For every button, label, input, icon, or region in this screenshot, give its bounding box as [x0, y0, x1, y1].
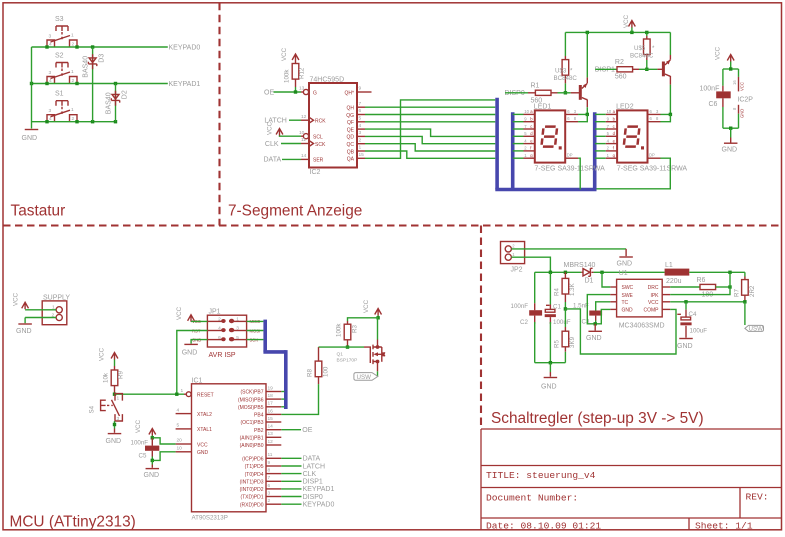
- wire PD net LATCH: [281, 465, 301, 467]
- svg-text:KEYPAD1: KEYPAD1: [303, 486, 335, 493]
- svg-text:g: g: [530, 153, 533, 158]
- svg-text:1.3K: 1.3K: [569, 282, 576, 296]
- capacitor C2 100nF: [511, 272, 543, 362]
- svg-text:9: 9: [268, 460, 271, 466]
- capacitor C3 1.5nF: [582, 304, 603, 326]
- svg-text:PB4: PB4: [254, 413, 264, 419]
- svg-text:OE: OE: [264, 89, 274, 96]
- ground C6: [730, 138, 732, 143]
- svg-text:(MISO)PB6: (MISO)PB6: [238, 397, 264, 403]
- svg-text:3: 3: [574, 109, 577, 114]
- wire C5 to IC1 GND pin: [152, 452, 175, 461]
- wire S4 to GND: [114, 421, 116, 429]
- wire JP1 pin2 VCC: [191, 320, 207, 322]
- svg-text:(TXD)PD1: (TXD)PD1: [240, 495, 263, 501]
- wire LED1 DP to bus: [578, 158, 580, 189]
- svg-text:(ICP)PD6: (ICP)PD6: [242, 457, 264, 463]
- svg-text:6: 6: [268, 483, 271, 489]
- wire VCC to R3 top: [348, 318, 379, 321]
- svg-text:100nF: 100nF: [131, 439, 149, 446]
- diode D1 MBRS140: [564, 262, 596, 285]
- svg-text:e: e: [613, 138, 616, 143]
- svg-text:220u: 220u: [666, 278, 682, 285]
- svg-text:C2: C2: [520, 319, 528, 326]
- switch S3: [47, 16, 77, 48]
- svg-text:GND: GND: [586, 335, 602, 342]
- svg-text:3: 3: [656, 109, 659, 114]
- resistor R9 10k reset pullup: [99, 347, 125, 394]
- capacitor C1 100uF polarized: [545, 272, 571, 362]
- svg-text:MC34063SMD: MC34063SMD: [619, 323, 665, 330]
- svg-text:10k: 10k: [103, 372, 110, 383]
- title block frame: [481, 429, 782, 530]
- svg-text:DP: DP: [567, 153, 573, 158]
- svg-text:JP1: JP1: [209, 309, 221, 316]
- svg-text:MBRS140: MBRS140: [564, 262, 596, 269]
- svg-text:9: 9: [524, 117, 527, 122]
- svg-text:1: 1: [607, 153, 610, 158]
- svg-text:GND: GND: [722, 147, 738, 154]
- svg-text:IPK: IPK: [650, 293, 659, 299]
- svg-text:6: 6: [650, 116, 653, 121]
- svg-text:*: *: [652, 45, 655, 52]
- svg-text:13: 13: [299, 86, 305, 92]
- wire GND rail C6: [723, 127, 739, 129]
- svg-text:RESET: RESET: [197, 393, 214, 399]
- svg-text:17: 17: [268, 401, 274, 407]
- svg-text:LED1: LED1: [534, 104, 552, 111]
- wire VIN rail: [535, 271, 582, 273]
- svg-text:2: 2: [359, 137, 362, 143]
- svg-text:(MOSI)PB5: (MOSI)PB5: [238, 405, 264, 411]
- wire VCC pin row: [670, 301, 745, 303]
- svg-text:VCC: VCC: [740, 82, 745, 91]
- svg-text:1: 1: [524, 153, 527, 158]
- svg-text:TC: TC: [622, 300, 629, 306]
- wire KEYPAD0 row: [32, 46, 168, 48]
- svg-text:SWE: SWE: [622, 293, 634, 299]
- svg-text:1: 1: [117, 395, 120, 401]
- svg-text:QD: QD: [347, 135, 355, 141]
- svg-text:QH*: QH*: [345, 90, 355, 96]
- svg-text:CLK: CLK: [303, 471, 317, 478]
- wire LED2 DP to bus: [597, 158, 671, 189]
- svg-text:100uF: 100uF: [553, 319, 571, 326]
- wire VCC to Q1 drain: [377, 318, 380, 340]
- svg-text:10: 10: [299, 130, 305, 136]
- ground JP2: [625, 249, 627, 256]
- svg-text:(INT0)PD2: (INT0)PD2: [240, 487, 264, 493]
- svg-text:GND: GND: [617, 261, 633, 268]
- ground C5: [151, 460, 153, 464]
- wire JP2 pin2 to GND: [511, 248, 626, 250]
- wire QC jog to bus: [365, 144, 495, 151]
- svg-text:10: 10: [524, 109, 529, 114]
- svg-text:IC2P: IC2P: [737, 96, 753, 103]
- svg-text:VCC: VCC: [197, 442, 208, 448]
- svg-text:GND: GND: [197, 450, 209, 456]
- svg-text:BC848C: BC848C: [554, 75, 578, 82]
- svg-text:8: 8: [732, 107, 737, 110]
- wire R1 to T1 base: [558, 92, 571, 94]
- resistor R3 100k: [336, 321, 359, 347]
- svg-text:KEYPAD0: KEYPAD0: [169, 45, 201, 52]
- resistor R1 560: [528, 83, 558, 105]
- svg-text:*: *: [570, 68, 573, 75]
- svg-text:6: 6: [650, 109, 653, 114]
- power VCC to SCL: [267, 121, 283, 135]
- svg-text:9: 9: [607, 117, 610, 122]
- svg-text:2: 2: [607, 146, 610, 151]
- svg-text:R7: R7: [734, 289, 741, 297]
- wire D2 branch: [115, 84, 117, 122]
- inductor L1 220u: [665, 262, 690, 285]
- svg-text:16: 16: [268, 408, 274, 414]
- svg-text:GND: GND: [182, 350, 198, 357]
- wire PB7 to bus: [281, 391, 284, 393]
- wire TC to C3: [596, 302, 611, 304]
- svg-text:(OC1)PB3: (OC1)PB3: [240, 420, 263, 426]
- svg-text:e: e: [530, 138, 533, 143]
- wire QE jog to bus: [365, 129, 495, 136]
- ground Tastatur: [25, 129, 39, 131]
- svg-text:2: 2: [512, 244, 515, 249]
- capacitor C4 100uF polarized: [677, 302, 707, 335]
- wire QD jog to bus: [365, 136, 495, 143]
- resistor R6 180: [697, 277, 716, 299]
- svg-text:11: 11: [301, 137, 306, 143]
- svg-text:OE: OE: [302, 427, 312, 434]
- 7-segment display LED1 7-SEG SA39-11SRWA: [513, 104, 605, 173]
- svg-text:R6: R6: [697, 277, 706, 284]
- svg-text:13: 13: [268, 431, 274, 437]
- svg-text:USW: USW: [357, 374, 372, 381]
- wire JP1 pin3 to bus: [247, 330, 264, 332]
- svg-text:JP2: JP2: [511, 267, 523, 274]
- resistor U$5 pullup T2: [644, 32, 651, 69]
- svg-text:DISP1: DISP1: [303, 479, 323, 486]
- wire VCC rail of drivers: [565, 31, 670, 33]
- svg-text:(T0)PD4: (T0)PD4: [245, 472, 264, 478]
- svg-text:19: 19: [268, 385, 274, 391]
- svg-text:18: 18: [268, 393, 274, 399]
- net flag USW mcu: [354, 373, 378, 381]
- svg-text:XTAL2: XTAL2: [197, 412, 212, 418]
- svg-text:d: d: [530, 131, 533, 136]
- svg-text:VCC: VCC: [281, 47, 288, 61]
- svg-text:10: 10: [177, 446, 183, 452]
- svg-text:560: 560: [615, 74, 627, 81]
- power VCC arrow C6: [715, 46, 735, 69]
- svg-text:VCC: VCC: [363, 299, 370, 313]
- svg-text:REV:: REV:: [746, 492, 769, 503]
- bus ISP vertical 1: [263, 320, 267, 352]
- svg-text:KEYPAD0: KEYPAD0: [303, 502, 335, 509]
- svg-text:S3: S3: [55, 16, 64, 23]
- svg-text:VCC: VCC: [267, 121, 274, 135]
- resistor U$3 pullup T1: [562, 32, 569, 92]
- svg-text:1: 1: [512, 252, 515, 257]
- svg-text:7-Segment Anzeige: 7-Segment Anzeige: [228, 203, 362, 220]
- svg-text:LATCH: LATCH: [303, 463, 325, 470]
- dashed divider Schaltregler left edge: [480, 226, 482, 428]
- svg-text:1: 1: [71, 69, 74, 75]
- svg-text:c: c: [613, 124, 615, 129]
- svg-text:16: 16: [732, 80, 737, 85]
- svg-text:BSP170P: BSP170P: [337, 358, 358, 364]
- ground regulator input: [549, 372, 551, 377]
- wire JP1 pin1 to bus: [247, 320, 264, 322]
- svg-text:VCC: VCC: [715, 46, 722, 60]
- svg-text:11: 11: [268, 452, 273, 458]
- power VCC arrow top: [623, 14, 635, 32]
- svg-text:VCC: VCC: [135, 419, 142, 433]
- capacitor C6 100nF: [700, 69, 731, 128]
- svg-text:GND: GND: [144, 472, 160, 479]
- wire IPK to L1 node: [670, 272, 730, 294]
- svg-text:Q1: Q1: [337, 352, 344, 358]
- svg-text:3: 3: [268, 490, 271, 496]
- svg-text:GND: GND: [541, 384, 557, 391]
- svg-text:R12: R12: [299, 67, 306, 79]
- wire Q1 drain: [377, 340, 379, 348]
- svg-text:3: 3: [49, 108, 52, 114]
- svg-text:QF: QF: [347, 120, 354, 126]
- wire T1 emitter to rail: [586, 32, 588, 77]
- wire JP1 pin6 to GND: [191, 340, 207, 344]
- svg-text:12: 12: [301, 114, 307, 120]
- switch S1: [47, 91, 77, 123]
- svg-text:c: c: [530, 124, 532, 129]
- wire QH to bus: [365, 106, 495, 108]
- svg-text:8: 8: [656, 116, 659, 121]
- svg-text:QB: QB: [347, 149, 355, 155]
- wire DATA to SER: [282, 158, 301, 160]
- svg-text:BAS40: BAS40: [82, 56, 89, 78]
- svg-text:100: 100: [323, 366, 330, 377]
- svg-text:Sheet: 1/1: Sheet: 1/1: [695, 520, 753, 531]
- svg-text:U$5: U$5: [634, 45, 646, 52]
- svg-text:Schaltregler (step-up 3V -> 5V: Schaltregler (step-up 3V -> 5V): [491, 410, 704, 427]
- svg-text:R4: R4: [554, 288, 561, 296]
- wire RESET net: [115, 393, 185, 395]
- switch S2: [47, 53, 77, 85]
- svg-text:100k: 100k: [336, 323, 343, 337]
- wire PD net DISP0: [281, 496, 301, 498]
- power VCC arrow SUPPLY: [13, 292, 29, 309]
- svg-text:100k: 100k: [284, 69, 291, 83]
- diode D3 BAS40: [82, 54, 105, 78]
- wire JP1 pin5 to bus: [247, 339, 264, 341]
- wire Q1 source to USW: [377, 362, 379, 372]
- svg-text:G: G: [313, 90, 317, 96]
- svg-text:XTAL1: XTAL1: [197, 427, 212, 433]
- svg-text:Document Number:: Document Number:: [486, 493, 578, 504]
- svg-text:14: 14: [268, 424, 274, 430]
- wire left rail to GND: [31, 47, 33, 129]
- transistor T1 PNP BC848C: [579, 77, 588, 107]
- wire CLK to SCK: [281, 143, 301, 145]
- wire T2 collector to LED2 anodes: [660, 85, 670, 115]
- svg-text:DATA: DATA: [303, 456, 321, 463]
- svg-text:7: 7: [268, 475, 271, 481]
- wire R8 to PB4: [281, 384, 318, 414]
- ground U1: [594, 324, 596, 331]
- svg-text:C6: C6: [709, 101, 718, 108]
- transistor T2 PNP BC848C: [662, 55, 671, 85]
- svg-text:1: 1: [71, 107, 74, 113]
- IC U1 MC34063SMD: [610, 270, 670, 330]
- svg-text:15: 15: [268, 416, 274, 422]
- svg-text:AVR ISP: AVR ISP: [209, 352, 236, 359]
- svg-text:QA: QA: [347, 157, 355, 163]
- svg-text:RCK: RCK: [315, 119, 326, 125]
- svg-text:12: 12: [268, 439, 274, 445]
- resistor R8 100: [307, 347, 330, 384]
- wire GND rail regulator: [535, 362, 566, 364]
- svg-text:VCC: VCC: [176, 306, 183, 320]
- wire JP2 pin1 to rail: [511, 257, 550, 272]
- svg-text:R2: R2: [615, 59, 624, 66]
- connector SUPPLY: [42, 295, 70, 325]
- svg-text:R3: R3: [352, 325, 359, 333]
- svg-text:10: 10: [607, 109, 612, 114]
- svg-text:D1: D1: [585, 278, 594, 285]
- svg-text:15: 15: [359, 152, 365, 158]
- svg-text:TITLE: steuerung_v4: TITLE: steuerung_v4: [486, 470, 596, 481]
- svg-text:S4: S4: [89, 405, 96, 413]
- svg-text:IC1: IC1: [192, 377, 203, 384]
- svg-text:GND: GND: [16, 328, 32, 335]
- svg-text:GND: GND: [677, 343, 693, 350]
- IC U2 74HC595D shift register IC2: [299, 77, 372, 177]
- bus segment vertical B LED1: [511, 112, 515, 189]
- svg-text:VCC: VCC: [648, 300, 659, 306]
- svg-text:2R2: 2R2: [749, 285, 756, 297]
- power VCC arrow Q1: [363, 299, 382, 317]
- svg-text:SCL: SCL: [313, 135, 323, 141]
- svg-text:5: 5: [177, 423, 180, 429]
- svg-text:(AIN0)PB0: (AIN0)PB0: [240, 443, 264, 449]
- resistor R12 100k pullup: [281, 47, 306, 87]
- svg-text:U$3: U$3: [555, 68, 567, 75]
- wire QB jog to bus: [365, 151, 495, 158]
- switch S4 reset button: [89, 394, 123, 422]
- svg-text:100uF: 100uF: [690, 328, 708, 335]
- svg-text:7: 7: [359, 101, 362, 107]
- pin header JP1 AVR ISP: [192, 309, 261, 360]
- svg-text:BAS40: BAS40: [105, 92, 112, 114]
- svg-text:100nF: 100nF: [700, 85, 720, 92]
- svg-text:QG: QG: [346, 113, 354, 119]
- svg-text:S2: S2: [55, 53, 64, 60]
- dashed divider Tastatur right edge: [218, 3, 220, 226]
- IC U1 AT90S2313P IC1: [176, 377, 282, 521]
- wire DRC to R6: [670, 286, 700, 288]
- wire VCC rail C6: [723, 68, 739, 70]
- dashed divider horizontal: [3, 224, 782, 226]
- wire SUPPLY pin2 GND: [25, 317, 56, 319]
- svg-text:PB2: PB2: [254, 428, 264, 434]
- svg-text:(T1)PD5: (T1)PD5: [245, 464, 264, 470]
- svg-text:R1: R1: [531, 83, 540, 90]
- wire PB2 OE: [281, 429, 301, 431]
- svg-text:D3: D3: [98, 54, 105, 63]
- wire PD net KEYPAD1: [281, 488, 301, 490]
- svg-text:100nF: 100nF: [511, 303, 529, 310]
- wire feedback COMP net: [565, 309, 676, 354]
- svg-text:9: 9: [359, 86, 362, 92]
- wire SWC from rail: [602, 272, 610, 287]
- svg-text:C4: C4: [689, 311, 697, 318]
- bus ISP elbow: [263, 350, 285, 354]
- wire PD net KEYPAD0: [281, 503, 301, 505]
- wire SUPPLY pin1 VCC: [25, 309, 56, 311]
- wire T2 emitter to rail: [669, 32, 671, 55]
- wire D3 branch: [92, 47, 94, 122]
- svg-text:5: 5: [359, 116, 362, 122]
- resistor R5 3K9: [554, 309, 577, 363]
- svg-text:QC: QC: [347, 142, 355, 148]
- svg-text:(SCK)PB7: (SCK)PB7: [240, 390, 263, 396]
- svg-text:6: 6: [567, 109, 570, 114]
- ground C4: [685, 334, 687, 338]
- svg-text:C5: C5: [139, 453, 147, 460]
- svg-text:R9: R9: [118, 371, 125, 379]
- svg-text:DISP0: DISP0: [303, 494, 323, 501]
- wire PD net DATA: [281, 457, 301, 459]
- wire QG to bus: [365, 114, 495, 116]
- svg-text:VCC: VCC: [99, 347, 106, 361]
- resistor R7 2R2: [734, 272, 757, 302]
- svg-text:5: 5: [607, 131, 610, 136]
- svg-text:1: 1: [359, 145, 362, 151]
- wire R2 to T2 base: [639, 68, 657, 70]
- svg-text:DATA: DATA: [264, 157, 282, 164]
- svg-text:Tastatur: Tastatur: [11, 203, 66, 220]
- svg-text:C1: C1: [553, 304, 561, 311]
- svg-text:(AIN1)PB1: (AIN1)PB1: [240, 436, 264, 442]
- svg-text:8: 8: [574, 116, 577, 121]
- svg-text:20: 20: [177, 438, 183, 444]
- wire QF to bus: [365, 121, 495, 123]
- svg-text:DP: DP: [649, 153, 655, 158]
- wire L1 out: [689, 271, 745, 273]
- diode D2 BAS40: [105, 90, 128, 114]
- wire PD net DISP1: [281, 480, 301, 482]
- svg-text:SWC: SWC: [622, 285, 634, 291]
- svg-text:R8: R8: [307, 369, 314, 377]
- capacitor C5 100nF: [131, 419, 160, 462]
- svg-text:GND: GND: [106, 438, 122, 445]
- wire KEYPAD1 row: [32, 83, 168, 85]
- svg-text:QH: QH: [347, 106, 355, 112]
- svg-text:VCC: VCC: [13, 292, 20, 306]
- wire OE to IC2 pin G: [274, 91, 302, 93]
- wire T1 collector to LED1 anodes: [578, 107, 587, 114]
- svg-text:f: f: [530, 146, 532, 151]
- svg-text:QE: QE: [347, 127, 355, 133]
- svg-text:D2: D2: [121, 90, 128, 99]
- svg-text:7-SEG SA39-11SRWA: 7-SEG SA39-11SRWA: [535, 166, 606, 173]
- wire DISP0 to R1: [505, 92, 528, 94]
- svg-text:1: 1: [181, 388, 184, 394]
- bus segment bottom: [495, 188, 596, 192]
- svg-text:3: 3: [49, 34, 52, 40]
- svg-text:560: 560: [531, 98, 543, 105]
- ground SUPPLY: [18, 323, 32, 325]
- bus segment vertical C LED2: [593, 112, 597, 189]
